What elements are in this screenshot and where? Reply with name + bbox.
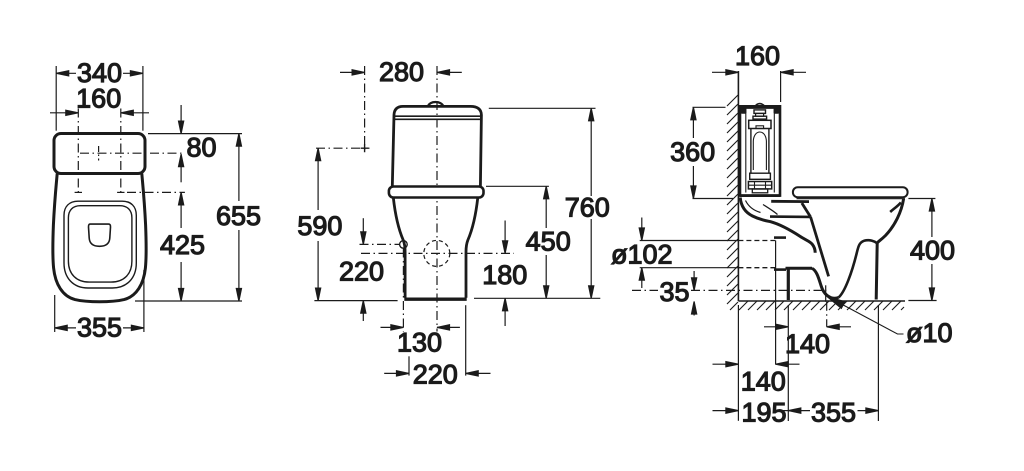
seat outer ring — [64, 201, 136, 288]
flush valve cap — [749, 120, 771, 128]
dimension 355 — [788, 410, 810, 412]
water cup — [88, 224, 110, 246]
svg-text:360: 360 — [670, 137, 715, 167]
svg-text:ø102: ø102 — [611, 240, 673, 270]
dimension lines o102 — [640, 241, 739, 268]
floor hatching — [739, 301, 904, 310]
cistern corner bolts — [741, 108, 747, 114]
seat underline — [797, 198, 906, 200]
inlet circle marker — [400, 241, 408, 249]
holes centerline horizontal — [127, 191, 185, 193]
cistern lid lines — [394, 115, 481, 117]
svg-text:ø10: ø10 — [906, 318, 953, 348]
cistern inner walls — [746, 109, 775, 193]
outlet tick top — [774, 236, 786, 239]
seat inner ring — [68, 206, 131, 282]
center axis vertical — [436, 66, 438, 332]
svg-text:355: 355 — [77, 313, 122, 343]
cistern front outline — [392, 106, 481, 186]
outlet ledge — [786, 267, 813, 270]
dimension 160 — [712, 71, 738, 73]
dimension 400 — [908, 198, 935, 200]
centerline cross (plan) — [80, 152, 183, 154]
svg-text:140: 140 — [741, 366, 786, 396]
wall hatching — [727, 95, 738, 310]
supply centerline horizontal — [316, 147, 370, 149]
flush elbow inner curves — [746, 201, 778, 215]
flush valve tower — [751, 129, 769, 173]
extension x878 — [877, 305, 879, 421]
bowl rim back diagonal — [802, 203, 811, 217]
bowl front profile — [876, 199, 903, 300]
dimension 590 — [317, 148, 319, 210]
svg-text:160: 160 — [76, 84, 121, 114]
cistern bottom line — [740, 194, 780, 197]
svg-text:450: 450 — [526, 227, 571, 257]
svg-text:140: 140 — [785, 329, 830, 359]
svg-text:130: 130 — [397, 328, 442, 358]
floor extension left — [314, 300, 397, 302]
dimension 180 — [504, 221, 506, 254]
seat slab — [793, 187, 908, 197]
flush valve feet — [752, 189, 767, 193]
dimension 220 bottom — [408, 356, 410, 375]
outlet passage top — [770, 215, 810, 218]
bowl inner rim arc — [890, 202, 901, 212]
bowl rim top — [771, 200, 809, 203]
dimension 655 — [238, 134, 240, 201]
flush valve base block — [748, 182, 771, 189]
dimension 195 — [713, 410, 739, 412]
svg-text:655: 655 — [216, 201, 261, 231]
flush valve lower band — [750, 173, 771, 179]
dimension 280 — [340, 71, 365, 73]
inlet centerline horizontal — [360, 243, 400, 245]
bowl rim band — [389, 187, 484, 198]
outlet 35 centerline — [632, 289, 826, 291]
dimension 220 vertical — [362, 218, 364, 244]
svg-text:80: 80 — [187, 133, 217, 163]
hole centerline left — [77, 109, 79, 194]
dimension 160 — [50, 112, 78, 114]
dimension 340 — [55, 66, 57, 131]
outlet tick bottom — [774, 268, 786, 271]
supply centerline vertical — [364, 66, 366, 154]
dimension 140 top row — [764, 326, 788, 328]
svg-text:220: 220 — [413, 360, 458, 390]
floor line — [738, 300, 905, 302]
pedestal base bottom — [404, 298, 466, 301]
bowl front outline — [393, 198, 478, 298]
outlet dashed bottom — [738, 267, 775, 269]
flush valve button rods — [754, 110, 766, 114]
cistern button — [428, 102, 444, 106]
bowl bottom extension line — [135, 300, 242, 302]
dimension 355 — [54, 295, 56, 332]
svg-text:590: 590 — [297, 211, 342, 241]
svg-text:760: 760 — [565, 193, 610, 223]
dimension 35 — [693, 271, 695, 290]
hole tick right — [117, 191, 124, 193]
tank top extension right — [489, 107, 596, 109]
supply cross marker — [361, 144, 369, 152]
wall extension below floor — [737, 305, 739, 421]
dimension 450 — [545, 186, 547, 228]
trap bottom curve — [812, 268, 839, 298]
svg-text:355: 355 — [811, 397, 856, 427]
fixing centerline vertical — [402, 249, 404, 332]
tank top extension line — [148, 133, 242, 135]
hole centerline right — [120, 109, 122, 194]
flush elbow outer — [740, 198, 815, 253]
hole tick left — [75, 191, 82, 193]
wall line — [737, 71, 739, 301]
band extension right — [486, 185, 549, 187]
floor extension right — [474, 297, 600, 299]
svg-text:195: 195 — [742, 397, 787, 427]
bowl body outline (plan) — [53, 174, 146, 302]
cistern plan outline — [54, 134, 145, 174]
drain centerline horizontal — [361, 252, 514, 254]
outlet front face — [787, 268, 790, 300]
dimension 425 — [180, 192, 182, 228]
cistern side outline — [740, 106, 780, 195]
fixing centerline below floor — [826, 302, 828, 327]
outlet edge vertical — [775, 241, 777, 365]
svg-text:160: 160 — [735, 41, 780, 71]
svg-text:35: 35 — [659, 277, 689, 307]
dimension 360 — [693, 106, 726, 108]
svg-text:280: 280 — [379, 57, 424, 87]
dimension 130 — [381, 326, 404, 328]
drain dashed circle — [424, 240, 450, 266]
svg-text:180: 180 — [482, 260, 527, 290]
fixing hole tick — [825, 285, 827, 302]
bowl rear interior wall — [811, 217, 829, 276]
extension x788 — [787, 305, 789, 421]
fixing hole leader — [832, 299, 904, 334]
outlet dashed top — [738, 240, 775, 242]
flush valve bell — [753, 132, 766, 170]
svg-text:220: 220 — [339, 257, 384, 287]
svg-text:400: 400 — [910, 236, 955, 266]
bowl underside curve — [839, 240, 878, 297]
dimension 140 second row — [713, 363, 739, 365]
svg-text:425: 425 — [160, 230, 205, 260]
dimension 760 — [590, 108, 592, 196]
flush valve dome — [755, 104, 765, 107]
dimension 80 — [180, 105, 182, 134]
